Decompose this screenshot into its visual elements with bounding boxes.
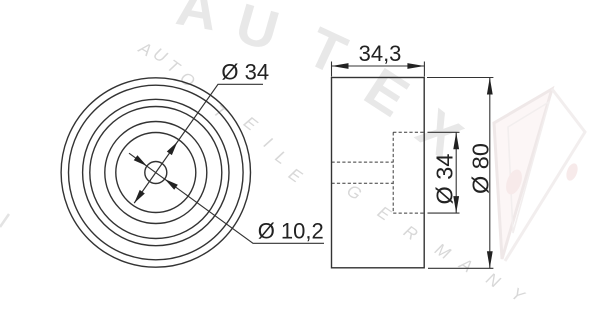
svg-text:Ø 80: Ø 80 bbox=[468, 143, 494, 194]
svg-text:Ø 34: Ø 34 bbox=[221, 60, 269, 85]
svg-text:Ø 34: Ø 34 bbox=[432, 154, 458, 205]
svg-text:34,3: 34,3 bbox=[359, 41, 402, 66]
svg-text:Ø 10,2: Ø 10,2 bbox=[258, 219, 324, 244]
